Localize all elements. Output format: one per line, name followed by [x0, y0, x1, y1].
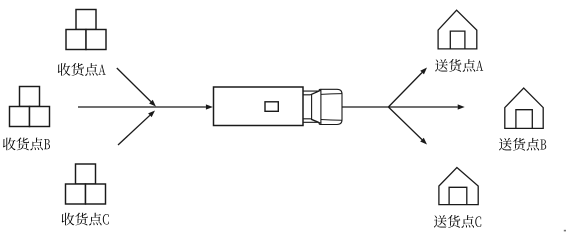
arrow to delivery A: [388, 68, 427, 108]
house delivery B: [505, 88, 543, 128]
box stack pickup C: [66, 164, 106, 204]
arrow to delivery B: [388, 104, 464, 109]
arrow to delivery C: [388, 107, 427, 145]
arrow from pickup A to merge point: [117, 68, 156, 107]
box stack pickup B: [10, 87, 50, 127]
truck: [214, 87, 343, 126]
arrow from pickup C to merge point: [118, 111, 155, 146]
label 收货点B: [3, 138, 50, 151]
arrow from pickup B into truck: [78, 104, 213, 109]
label 收货点A: [58, 63, 106, 76]
label 送货点C: [434, 215, 481, 228]
truck cab front: [319, 89, 342, 124]
box stack pickup A: [66, 10, 106, 50]
truck bottom connector: [303, 119, 319, 123]
label 送货点A: [435, 59, 483, 72]
house delivery C: [439, 168, 478, 205]
truck cab roof line: [321, 93, 342, 96]
house delivery A: [438, 10, 477, 49]
truck door square: [265, 102, 278, 112]
truck trailer: [214, 87, 304, 126]
truck windshield: [312, 90, 321, 123]
truck cab bottom line: [321, 119, 342, 122]
label 送货点B: [499, 138, 546, 151]
label 收货点C: [62, 213, 109, 226]
stray mark bottom right: [564, 230, 566, 232]
truck top connector: [303, 91, 319, 95]
wire truck to branch point: [342, 106, 388, 108]
